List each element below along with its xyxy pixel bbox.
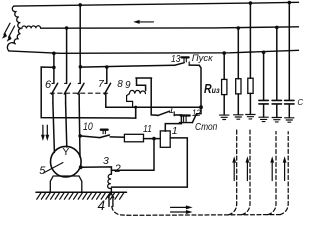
leader line label 5 [43,163,63,174]
label R_из [204,82,220,96]
motor feed wire a [53,103,55,153]
foundation hatching [37,193,124,199]
phase capacitance C3 [285,3,294,118]
incoming supply arrow 2 [7,26,15,42]
phase capacitance C1 [259,52,268,117]
wire left bend to arrows region [41,67,136,118]
motor M [51,146,82,177]
contactor main contact 7 [105,67,202,107]
disconnect switch 6 pole 2 [64,83,70,103]
direction arrow on network (left-pointing) [133,20,153,24]
label Стоп [195,121,217,133]
up arrow current 4 [283,156,287,180]
up arrow current 3 [270,156,274,180]
linkage dashed line [50,92,110,94]
down arrows (touch current) left pair [41,125,49,141]
dashed earth-current path from electrode [112,207,127,216]
stop button 12 [179,107,201,122]
node dot L1/pole3 [78,3,82,7]
motor pedestal [50,176,82,192]
wire pole3 drop [79,5,81,84]
dashed riser to R3 ground [242,129,250,215]
node dot stub left [52,66,56,70]
disconnect switch 6 pole 1 [52,83,58,103]
node dot wire c / contact 10 [78,134,82,138]
dashed riser to C2 ground [268,132,276,215]
label 4 [98,198,106,213]
label 3 [103,155,109,167]
branch wire A to motor earth conductor [111,139,154,171]
frame earthing wire 3 [81,167,112,174]
coil 8 left lead [127,94,133,107]
relay top lead [165,124,181,132]
motor feed wire c [78,103,81,157]
label 7 [98,78,104,90]
label 8 [117,79,123,90]
insulation resistor R2 [236,28,241,115]
phase line L3 [9,50,299,53]
wire stub Y107 to left loop [135,107,137,118]
ground under C3 [285,118,294,122]
ground electrode 4 [108,188,113,206]
incoming supply arrow 1 [2,23,10,39]
relay contact 1 blade [158,111,182,123]
control wire W1 to start button [80,65,174,67]
label 12 [192,108,201,119]
disconnect switch 6 pole 3 [78,83,84,103]
label 1 relay [172,125,178,137]
node dot L2/pole2 [65,26,69,30]
wire pole1 drop [53,53,55,83]
label Y motor [62,146,69,158]
contactor coil 8 [129,90,145,93]
up arrow current 1 [232,156,236,180]
earthing conductor coil [108,174,112,193]
up arrow current 2 [246,156,250,180]
seal-in contact 9 bridge [136,78,158,115]
phase capacitance C2 [272,27,281,117]
ground under R2 [234,115,243,119]
dashed riser to C3 ground [280,132,288,215]
node dot motor frame [79,165,83,169]
relay right wire to ground tap [111,138,187,187]
label 11 [143,123,152,135]
resistor 11 [124,134,143,142]
source winding (transformer secondary, scalloped arc) [7,6,21,50]
ground under R1 [220,115,229,119]
wire pole2 drop [66,28,68,83]
node dot W1/contact7 [105,65,109,69]
dashed riser to R2 ground [229,129,237,215]
label 9 [125,80,131,91]
insulation resistor R3 [248,3,253,114]
node dot stop/start junction [199,105,203,109]
label Пуск [192,53,213,64]
label 13 [171,54,180,65]
label 10 [83,121,93,133]
wire 11 to relay 1 [144,138,161,140]
label 2 [115,163,121,175]
label 6 [45,79,51,91]
ground under R3 [246,115,255,119]
ground under C1 [259,117,268,121]
label 1 contact [169,105,174,116]
pushbutton 10 [80,130,124,138]
motor feed wire b [66,103,67,147]
middle tap coil on L2 [22,26,41,29]
relay device 1 [160,131,170,147]
phase line L2 [41,27,299,28]
bottom double arrows right [171,205,193,214]
insulation resistor R1 [222,53,227,115]
start button 13 [174,57,201,107]
node dot L3/pole1 [52,52,56,56]
ground under C2 [272,118,281,122]
label 5 [39,165,45,177]
dashed bottom bus [127,214,280,217]
label C [297,98,303,107]
node dot branch down [152,137,156,141]
phase line L1 [14,2,299,6]
node dot W1 left [79,65,83,69]
foundation line [36,191,127,193]
